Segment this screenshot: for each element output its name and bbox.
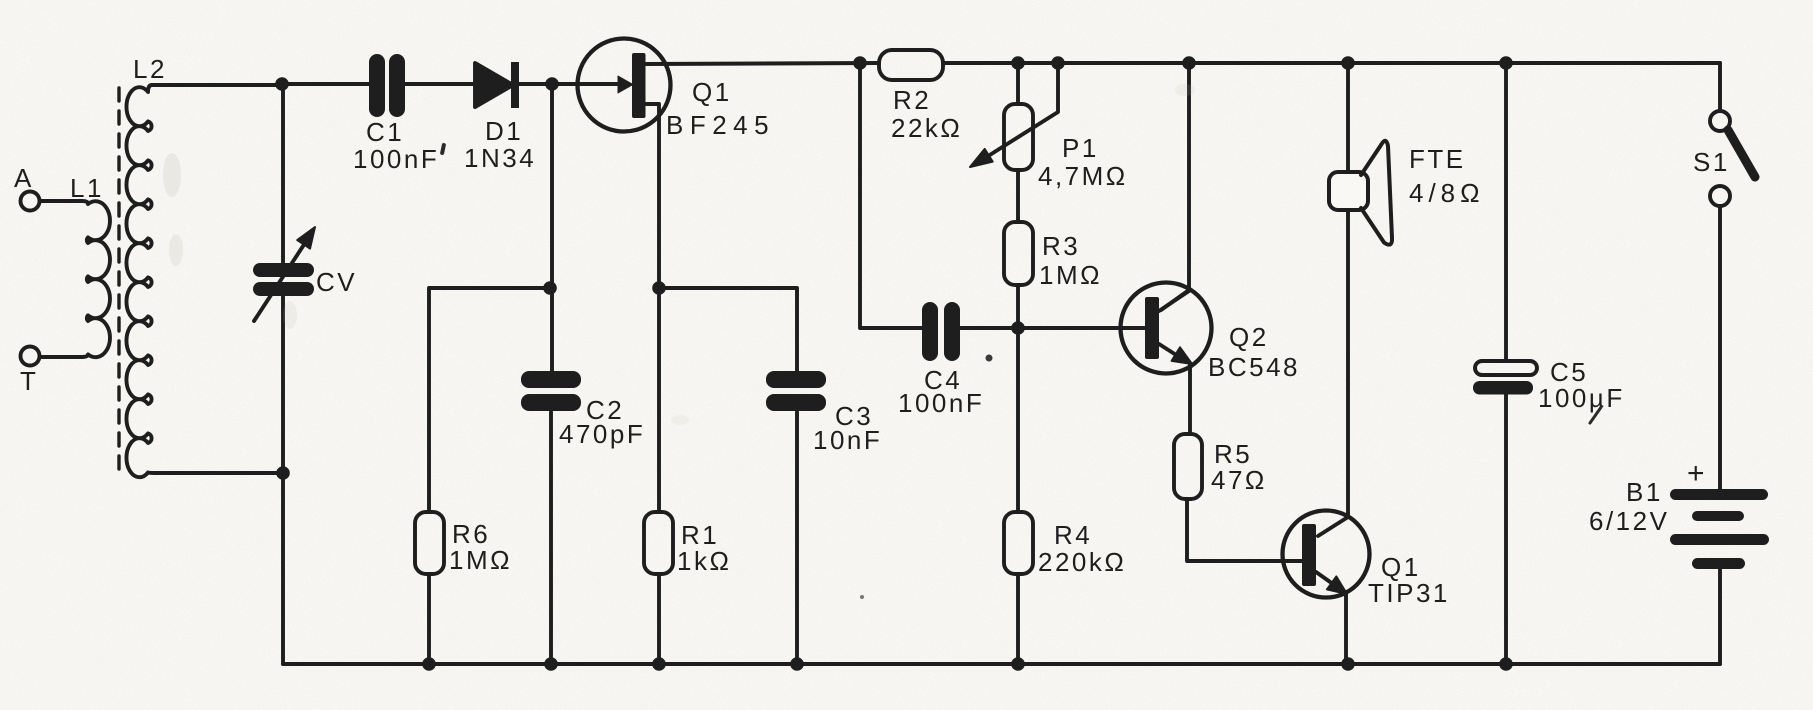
terminal A bbox=[21, 192, 40, 211]
wire: node to C3 bbox=[659, 288, 797, 373]
capacitor C3 plates bbox=[766, 371, 826, 411]
wire: R4 bottom to ground rail bbox=[1016, 574, 1020, 664]
svg-text:R2: R2 bbox=[893, 85, 931, 115]
node: rail / P1 top bbox=[1011, 56, 1025, 70]
wire: R1 bottom to ground rail bbox=[657, 574, 661, 664]
svg-text:L1: L1 bbox=[70, 173, 104, 203]
wire: R6 bottom to ground rail bbox=[427, 574, 431, 664]
wire: Q1 drain to R2 bbox=[646, 63, 879, 64]
node: ground C2 bbox=[544, 657, 558, 671]
transistor Q3 (labelled Q1 TIP31) body bbox=[1283, 511, 1370, 598]
wire: C1 to D1 bbox=[405, 82, 475, 86]
transistor Q3 emitter arrowhead bbox=[1327, 576, 1347, 594]
wire: top wire L2 to C1 bbox=[282, 82, 369, 86]
transistor Q2 emitter arrowhead bbox=[1172, 347, 1192, 364]
svg-text:4/8Ω: 4/8Ω bbox=[1409, 178, 1485, 208]
wire: Q3 emitter to ground rail bbox=[1344, 595, 1348, 664]
svg-text:100nF: 100nF bbox=[898, 388, 984, 418]
wire: C5 bottom to ground rail bbox=[1504, 394, 1508, 664]
svg-text:6/12V: 6/12V bbox=[1589, 506, 1669, 536]
svg-text:22kΩ: 22kΩ bbox=[891, 113, 962, 143]
svg-text:CV: CV bbox=[316, 267, 357, 297]
svg-text:470pF: 470pF bbox=[559, 419, 645, 449]
svg-text:1MΩ: 1MΩ bbox=[449, 545, 512, 575]
svg-text:S1: S1 bbox=[1693, 147, 1730, 177]
transistor Q1 JFET gate arrow bbox=[618, 76, 633, 93]
wire: rail down to Q2 collector bbox=[1161, 63, 1189, 310]
svg-text:R4: R4 bbox=[1054, 520, 1092, 550]
switch S1 lever bbox=[1728, 130, 1755, 177]
wire: C2 bottom to ground rail bbox=[549, 412, 553, 664]
svg-text:D1: D1 bbox=[485, 116, 523, 146]
node: ground R1 bbox=[652, 657, 666, 671]
capacitor C1 plates bbox=[369, 54, 405, 117]
wire: battery to ground rail corner bbox=[1718, 569, 1722, 664]
svg-text:10nF: 10nF bbox=[813, 425, 882, 455]
svg-text:BF245: BF245 bbox=[666, 110, 775, 140]
resistor R5 bbox=[1174, 434, 1202, 499]
battery B1 plates bbox=[1670, 489, 1769, 569]
svg-text:TIP31: TIP31 bbox=[1368, 578, 1450, 608]
node: rail / P1 wiper bbox=[1051, 56, 1065, 70]
node: ground R4 bbox=[1011, 657, 1025, 671]
node: ground R6 bbox=[422, 657, 436, 671]
transistor Q2 collector lead bbox=[1159, 291, 1189, 311]
node: R1/C3 bbox=[652, 281, 666, 295]
wire: speaker to Q3 collector bbox=[1318, 210, 1348, 536]
capacitor C5 bottom plate bbox=[1473, 381, 1533, 395]
svg-text:Q1: Q1 bbox=[692, 77, 732, 107]
transistor Q2 emitter lead bbox=[1159, 344, 1184, 360]
variable capacitor CV arrow bbox=[254, 240, 307, 321]
scan specks bbox=[440, 143, 1603, 599]
svg-text:T: T bbox=[20, 366, 38, 396]
capacitor C5 top plate bbox=[1475, 361, 1537, 375]
svg-text:FTE: FTE bbox=[1409, 144, 1466, 174]
terminal T bbox=[21, 347, 40, 366]
node: C4 / R3 / R4 bbox=[1011, 321, 1025, 335]
wire: detector node down to C2 bbox=[550, 84, 554, 373]
transistor Q2 base bar bbox=[1145, 297, 1159, 359]
svg-text:Q2: Q2 bbox=[1229, 322, 1269, 352]
svg-text:A: A bbox=[14, 163, 34, 193]
svg-text:B1: B1 bbox=[1626, 477, 1663, 507]
wire: C3 bottom to ground rail bbox=[795, 412, 799, 664]
svg-text:47Ω: 47Ω bbox=[1211, 465, 1267, 495]
node: ground Q3 emitter bbox=[1341, 657, 1355, 671]
svg-text:1N34: 1N34 bbox=[464, 143, 536, 173]
resistor R4 bbox=[1004, 512, 1033, 574]
switch S1 top contact bbox=[1710, 111, 1730, 131]
speaker FTE horn bbox=[1361, 141, 1392, 245]
svg-text:4,7MΩ: 4,7MΩ bbox=[1038, 161, 1128, 191]
capacitor C2 plates bbox=[521, 371, 581, 411]
node: rail / C4 branch bbox=[853, 56, 867, 70]
wire: Q2 emitter down to R5 bbox=[1188, 364, 1192, 434]
transformer core (dashed) bbox=[117, 88, 120, 472]
wire: C4 to Q2 base bbox=[959, 326, 1146, 330]
wire: bottom ground rail bbox=[283, 662, 1720, 666]
diode D1 bbox=[475, 63, 513, 107]
resistor R1 bbox=[644, 512, 673, 574]
paper smudges bbox=[163, 84, 1195, 425]
wire: node to R6 bbox=[429, 288, 550, 512]
node: ground C3 bbox=[790, 657, 804, 671]
svg-text:C1: C1 bbox=[366, 117, 404, 147]
node: ground C5 bbox=[1499, 657, 1513, 671]
wire: switch corner down to S1 bbox=[1718, 63, 1722, 111]
wire: CV to L2 bottom junction and down to ground rail bbox=[281, 296, 285, 664]
wire: branch from rail down to C4 bbox=[860, 63, 922, 328]
wire: top supply rail R2 to switch corner bbox=[943, 61, 1720, 65]
capacitor C4 plates bbox=[922, 302, 960, 361]
svg-text:L2: L2 bbox=[133, 54, 167, 84]
svg-text:P1: P1 bbox=[1062, 133, 1099, 163]
wire: CV branch top bbox=[281, 84, 285, 263]
wire: Q1 source down to R1 bbox=[646, 104, 659, 512]
transistor Q1 JFET channel bar bbox=[632, 53, 646, 118]
node: rail / Q2 collector bbox=[1182, 56, 1196, 70]
node: rail / speaker bbox=[1341, 56, 1355, 70]
svg-text:1kΩ: 1kΩ bbox=[677, 546, 731, 576]
svg-text:100µF: 100µF bbox=[1538, 383, 1625, 413]
node: L2/CV top bbox=[275, 77, 289, 91]
wire: S1 to battery bbox=[1718, 206, 1722, 489]
resistor R6 bbox=[415, 512, 444, 574]
transistor Q3 emitter lead bbox=[1316, 572, 1340, 589]
wire: D1 to Q1 gate bbox=[519, 82, 618, 86]
switch S1 bottom contact bbox=[1710, 186, 1730, 206]
node: C2/R6 bbox=[543, 281, 557, 295]
resistor R2 bbox=[879, 50, 943, 80]
inductor L2 bbox=[126, 85, 283, 477]
node: rail / C5 bbox=[1499, 56, 1513, 70]
node: L2 bottom / CV bbox=[276, 466, 290, 480]
wire: R5 to Q3 base bbox=[1187, 499, 1303, 561]
wire: R3 to node to R4 bbox=[1016, 285, 1020, 512]
potentiometer P1 wiper arrow bbox=[985, 63, 1058, 158]
svg-text:100nF: 100nF bbox=[353, 144, 439, 174]
transistor Q2 body bbox=[1121, 283, 1212, 374]
wire: rail down to C5 bbox=[1504, 63, 1508, 361]
transistor Q1 JFET body bbox=[578, 39, 671, 132]
variable capacitor CV plates bbox=[253, 263, 314, 296]
svg-text:R3: R3 bbox=[1042, 231, 1080, 261]
svg-text:BC548: BC548 bbox=[1208, 352, 1300, 382]
resistor R3 bbox=[1004, 222, 1033, 285]
transistor Q3 base bar bbox=[1302, 524, 1316, 586]
wire: rail to P1 top bbox=[1016, 63, 1020, 104]
svg-text:+: + bbox=[1687, 457, 1707, 490]
speaker FTE box bbox=[1329, 172, 1368, 210]
node: detector output bbox=[545, 77, 559, 91]
wire: P1 to R3 bbox=[1016, 170, 1020, 222]
wire: speaker branch from rail bbox=[1346, 63, 1350, 172]
inductor L1 bbox=[40, 201, 110, 357]
svg-text:220kΩ: 220kΩ bbox=[1038, 547, 1126, 577]
svg-text:1MΩ: 1MΩ bbox=[1039, 260, 1102, 290]
potentiometer P1 body bbox=[1004, 104, 1033, 170]
